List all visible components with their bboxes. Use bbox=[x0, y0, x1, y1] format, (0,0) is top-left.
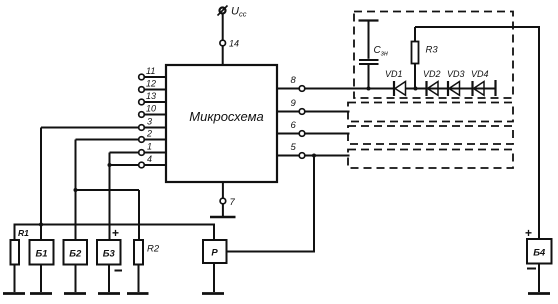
svg-text:6: 6 bbox=[291, 120, 297, 131]
svg-text:Микросхема: Микросхема bbox=[189, 109, 263, 124]
svg-text:VD4: VD4 bbox=[471, 69, 489, 79]
pin 10 bbox=[139, 104, 166, 118]
pin 4 wire to node at x=109.5 bbox=[110, 154, 167, 168]
svg-text:R2: R2 bbox=[147, 244, 160, 255]
ground R1 bbox=[3, 292, 25, 295]
resistor R2 bbox=[134, 240, 160, 292]
ground Б1 bbox=[30, 292, 52, 295]
svg-text:VD3: VD3 bbox=[447, 69, 465, 79]
svg-text:Б1: Б1 bbox=[35, 249, 47, 260]
dashed block 3 bbox=[348, 150, 513, 169]
node bus/Б1 junction bbox=[39, 223, 43, 227]
node pin4 junction bbox=[108, 163, 112, 167]
wire pin2 vertical down to Б2 bbox=[75, 140, 77, 241]
Ucc terminal bbox=[218, 6, 228, 16]
ground Б2 bbox=[64, 292, 86, 295]
resistor R3 bbox=[412, 27, 439, 89]
svg-text:13: 13 bbox=[146, 91, 156, 101]
battery Б4 bbox=[525, 226, 552, 292]
wire pins 1+4 vertical down to Б3 bbox=[109, 153, 111, 241]
dashed block 1 bbox=[348, 103, 513, 122]
svg-text:4: 4 bbox=[147, 154, 152, 164]
wire diode chain to end bar bbox=[406, 88, 496, 90]
wire P to pin5 bbox=[227, 156, 315, 252]
ground R2 bbox=[127, 292, 149, 295]
wire R3 top to right rail bbox=[415, 27, 539, 239]
diode VD2 bbox=[423, 69, 441, 96]
pin 9 wire bbox=[277, 98, 350, 114]
pin 5 wire bbox=[277, 142, 350, 158]
pin 6 wire bbox=[277, 120, 350, 136]
resistor R1 bbox=[11, 228, 30, 292]
battery Б1 bbox=[30, 240, 54, 292]
dashed block main (top) bbox=[354, 12, 513, 99]
svg-text:9: 9 bbox=[291, 98, 297, 109]
pin 11 bbox=[139, 66, 166, 80]
pin 2 wire to node at x=75.5 bbox=[76, 129, 167, 143]
svg-text:R1: R1 bbox=[18, 228, 29, 238]
terminal end bar bbox=[494, 80, 496, 96]
node R3 junction bbox=[414, 87, 418, 91]
svg-text:12: 12 bbox=[146, 79, 156, 89]
svg-text:Р: Р bbox=[211, 248, 218, 259]
pin 8 wire bbox=[277, 75, 394, 91]
svg-text:VD1: VD1 bbox=[385, 69, 403, 79]
pin 7 wire bbox=[222, 182, 224, 216]
svg-text:Б2: Б2 bbox=[69, 249, 82, 260]
dashed block 2 bbox=[348, 126, 513, 144]
svg-text:R3: R3 bbox=[426, 45, 439, 56]
wire pin3 vertical down to Б1 bbox=[40, 128, 42, 241]
diode VD4 bbox=[471, 69, 489, 96]
svg-text:+: + bbox=[112, 226, 119, 240]
capacitor Сзн bbox=[359, 21, 388, 89]
svg-text:5: 5 bbox=[291, 142, 297, 153]
ground Б3 bbox=[98, 292, 120, 295]
diode VD3 bbox=[447, 69, 465, 96]
pin 1 wire to node at x=109.5 bbox=[110, 142, 167, 156]
svg-text:2: 2 bbox=[146, 129, 152, 139]
node pin2/R2 junction bbox=[74, 188, 78, 192]
wire link to R2 bbox=[76, 190, 140, 240]
diode VD1 bbox=[385, 69, 406, 96]
pin 13 bbox=[139, 91, 166, 105]
ground pin 7 bbox=[210, 216, 236, 219]
battery Б3 bbox=[97, 226, 122, 292]
pin 7 bbox=[220, 198, 226, 204]
svg-text:VD2: VD2 bbox=[423, 69, 441, 79]
wire bottom bus R1 to P bbox=[15, 225, 215, 241]
svg-text:Б4: Б4 bbox=[533, 248, 546, 259]
relay P bbox=[203, 240, 227, 292]
svg-text:10: 10 bbox=[146, 104, 156, 114]
node pin5/P junction bbox=[312, 154, 316, 158]
battery Б2 bbox=[64, 240, 88, 292]
op-amp U1 chip Микросхема bbox=[166, 65, 277, 182]
svg-text:11: 11 bbox=[146, 66, 155, 76]
ground P bbox=[202, 292, 224, 295]
svg-text:+: + bbox=[525, 226, 532, 240]
svg-text:Б3: Б3 bbox=[103, 249, 116, 260]
ground Б4 bbox=[528, 292, 550, 295]
node cap junction bbox=[367, 87, 371, 91]
svg-text:14: 14 bbox=[229, 39, 239, 49]
wire Ucc to pin 14 to chip top bbox=[222, 14, 224, 66]
pin 12 bbox=[139, 79, 166, 93]
svg-text:8: 8 bbox=[291, 75, 297, 86]
svg-text:1: 1 bbox=[147, 142, 152, 152]
pin 3 wire to node at x=41 bbox=[41, 117, 166, 131]
pin 14 bbox=[220, 40, 226, 46]
svg-text:3: 3 bbox=[147, 117, 152, 127]
svg-text:7: 7 bbox=[230, 197, 236, 208]
